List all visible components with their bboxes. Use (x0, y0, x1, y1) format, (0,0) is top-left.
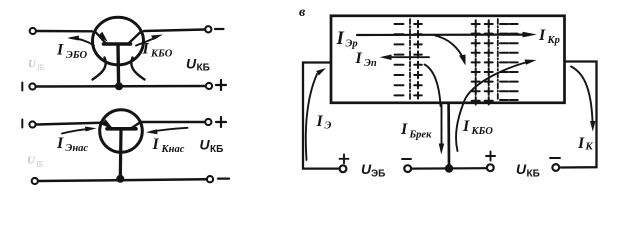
svg-text:ІБ: ІБ (37, 63, 45, 72)
svg-text:I: I (56, 42, 64, 59)
svg-text:Энас: Энас (66, 143, 89, 154)
svg-text:КБО: КБО (150, 49, 173, 60)
svg-text:КБ: КБ (527, 169, 540, 180)
svg-text:I: I (56, 135, 64, 152)
svg-text:в: в (299, 5, 306, 20)
svg-text:U: U (28, 58, 37, 70)
svg-text:I: I (336, 28, 345, 49)
svg-text:U: U (200, 137, 211, 153)
svg-text:Эп: Эп (364, 58, 377, 69)
svg-text:ЭБО: ЭБО (66, 50, 88, 61)
svg-text:I: I (538, 27, 546, 44)
svg-text:I: I (316, 113, 324, 130)
svg-text:Кр: Кр (547, 35, 560, 46)
svg-text:Э: Э (325, 121, 332, 132)
svg-text:Брек: Брек (409, 130, 433, 141)
svg-text:I: I (462, 118, 470, 135)
svg-text:U: U (27, 155, 36, 167)
svg-text:I: I (152, 136, 160, 153)
svg-text:U: U (186, 56, 197, 72)
svg-text:КБО: КБО (471, 126, 494, 137)
svg-text:I: I (400, 121, 408, 138)
svg-text:КБ: КБ (210, 144, 223, 155)
svg-text:U: U (516, 161, 527, 177)
svg-text:КБ: КБ (197, 63, 210, 74)
svg-text:Кнас: Кнас (161, 144, 185, 155)
svg-text:К: К (585, 142, 594, 153)
svg-text:I: I (142, 41, 150, 58)
svg-text:ІБ: ІБ (36, 160, 44, 169)
svg-text:I: I (577, 135, 585, 152)
svg-text:ЭБ: ЭБ (371, 169, 385, 180)
svg-text:Эр: Эр (346, 39, 358, 50)
svg-text:I: I (355, 50, 363, 67)
